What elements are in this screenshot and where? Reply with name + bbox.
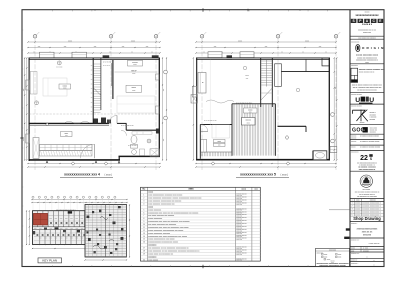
svg-text:17: 17 bbox=[143, 248, 145, 250]
svg-text:xxxxxxxx: xxxxxxxx bbox=[370, 131, 376, 133]
svg-text:6: 6 bbox=[143, 212, 144, 214]
svg-text:xxxxxxxxx: xxxxxxxxx bbox=[351, 65, 358, 67]
lift shaft bbox=[275, 64, 282, 87]
svg-text:xxx xxxxxxxxx xxx xxxxxxxxx: xxx xxxxxxxxx xxx xxxxxxxxx bbox=[357, 196, 377, 198]
svg-text:xxxxxxxx :: xxxxxxxx : bbox=[351, 263, 359, 265]
svg-text:xxxxxxxx xxxxxxxxxxx x: xxxxxxxx xxxxxxxxxxx x bbox=[362, 203, 381, 205]
svg-text:xxxx: xxxx bbox=[238, 40, 242, 42]
svg-text:xxx: xxx bbox=[218, 145, 221, 147]
svg-text:xxxxxxxxxxxx xxxxxxxxxxx x: xxxxxxxxxxxx xxxxxxxxxxx x bbox=[356, 60, 378, 62]
svg-text:xxxxxx: xxxxxx bbox=[355, 206, 360, 208]
svg-text:5: 5 bbox=[143, 209, 144, 211]
svg-text:xxx: xxx bbox=[249, 111, 252, 113]
drawing no field bbox=[350, 245, 384, 247]
svg-text:15: 15 bbox=[143, 239, 145, 241]
svg-text:xxx: xxx bbox=[335, 139, 337, 142]
svg-text:2: 2 bbox=[143, 198, 144, 200]
svg-text:KEY PLAN: KEY PLAN bbox=[42, 259, 57, 263]
svg-text:xxxxxx: xxxxxx bbox=[355, 203, 360, 205]
svg-text:xxxxxxxxxxxxxx xxx 4: xxxxxxxxxxxxxx xxx 4 bbox=[64, 173, 100, 177]
svg-text:xxxx xxxxx xxxx xxxxxxx: xxxx xxxxx xxxx xxxxxxx bbox=[358, 37, 375, 39]
svg-text:xxxxxxxx: xxxxxxxx bbox=[370, 114, 377, 116]
svg-text:22: 22 bbox=[360, 155, 368, 162]
svg-text:xx: xx bbox=[325, 51, 327, 53]
svg-text:xxxxxx xxx: xxxxxx xxx bbox=[370, 130, 377, 132]
svg-text:12: 12 bbox=[143, 230, 145, 232]
svg-text:xxxx: xxxx bbox=[338, 254, 342, 256]
svg-text:xxxxx xxx: xxxxx xxx bbox=[236, 239, 242, 241]
right dimension lines bbox=[162, 58, 164, 160]
svg-text:xx: xx bbox=[151, 51, 153, 53]
svg-text:xxx: xxx bbox=[246, 78, 249, 80]
svg-text:xx: xx bbox=[302, 51, 304, 53]
door swings bbox=[109, 115, 117, 123]
svg-text:xxxxxxxxxxxxx xxxxxxxxxx xxxxx: xxxxxxxxxxxxx xxxxxxxxxx xxxxx bbox=[148, 242, 178, 244]
svg-text:xxx: xxx bbox=[122, 46, 125, 48]
bathroom fixtures bbox=[131, 135, 137, 143]
svg-text:18: 18 bbox=[143, 250, 145, 252]
svg-text:xxx: xxx bbox=[38, 46, 41, 48]
title block column bbox=[349, 10, 351, 267]
svg-text:xxxx: xxxx bbox=[131, 40, 135, 42]
svg-text:xn u mx n: xn u mx n bbox=[103, 65, 110, 67]
svg-text:( xxxx ): ( xxxx ) bbox=[281, 174, 289, 177]
svg-text:xxxxxx: xxxxxx bbox=[355, 208, 360, 210]
SPACE logo bbox=[351, 19, 357, 23]
svg-text:5: 5 bbox=[277, 36, 278, 38]
stair right plan bbox=[260, 58, 262, 107]
svg-text:xxxxx xxxxxxxx xxxx: xxxxx xxxxxxxx xxxx bbox=[356, 55, 379, 57]
left floor plan bbox=[34, 39, 36, 170]
svg-text:xxxxxx: xxxxxx bbox=[132, 62, 137, 64]
svg-text:x : xxx: x : xxx bbox=[363, 248, 368, 250]
svg-text:xxxx: xxxx bbox=[132, 90, 135, 92]
svg-text:xxxxxxx xxxxxxx: xxxxxxx xxxxxxx bbox=[351, 106, 362, 108]
consultant rows bbox=[350, 139, 384, 141]
svg-text:xxxxxxx: xxxxxxx bbox=[148, 245, 157, 247]
svg-text:1: 1 bbox=[143, 195, 144, 197]
svg-text:xxx: xxx bbox=[23, 89, 25, 92]
legend box bbox=[316, 248, 350, 266]
svg-text:xxxx xxxxxxxxxxx xxxxxxx xxxx: xxxx xxxxxxxxxxx xxxxxxx xxxx xxxxx bbox=[148, 195, 182, 197]
svg-text:Shop Drawing: Shop Drawing bbox=[353, 216, 381, 221]
svg-text:xxx: xxx bbox=[265, 46, 268, 48]
svg-text:20: 20 bbox=[143, 259, 145, 261]
svg-text:xn u mx nw en xa: xn u mx nw en xa bbox=[204, 120, 217, 122]
svg-text:9: 9 bbox=[143, 221, 144, 223]
svg-text:xxxxx xxxxxxxx xxxxxxx: xxxxx xxxxxxxx xxxxxxx bbox=[148, 233, 170, 235]
svg-text:xxxxx: xxxxx bbox=[131, 87, 136, 89]
balcony ledges bbox=[40, 52, 55, 58]
svg-text:xxxxxx: xxxxxx bbox=[360, 122, 365, 124]
svg-text:xxxx xxxxx: xxxx xxxxx bbox=[370, 128, 377, 130]
svg-text:xn u mx nw en xa: xn u mx nw en xa bbox=[121, 125, 134, 127]
lower-left room furniture bbox=[201, 139, 207, 152]
svg-text:xxxxxxxxxxxxxxxxxx: xxxxxxxxxxxxxxxxxx bbox=[357, 228, 379, 230]
signature rows bbox=[350, 257, 384, 259]
svg-text:xxx xxxxxx: xxx xxxxxx bbox=[362, 189, 370, 191]
svg-text:3: 3 bbox=[110, 36, 111, 38]
svg-text:10: 10 bbox=[143, 224, 145, 226]
svg-text:x x x: x x x bbox=[365, 177, 368, 179]
svg-text:xxxxxx xxxxxxx xxxx xx: xxxxxx xxxxxxx xxxx xx bbox=[359, 71, 375, 73]
svg-text:xn u mx nw e: xn u mx nw e bbox=[128, 145, 138, 147]
svg-text:xxxx: xxxx bbox=[305, 40, 309, 42]
svg-text:3: 3 bbox=[352, 208, 353, 210]
svg-text:xxxxx xxx: xxxxx xxx bbox=[236, 204, 242, 206]
svg-text:xxxxxxx xx :: xxxxxxx xx : bbox=[351, 240, 360, 242]
ceiling lamp symbols bbox=[57, 61, 61, 65]
svg-text:xxxxx: xxxxx bbox=[63, 85, 68, 87]
project field bbox=[350, 237, 384, 239]
svg-text:xxxx: xxxx bbox=[218, 141, 222, 143]
highlighted unit (red) bbox=[33, 213, 47, 225]
left dimension line bbox=[24, 58, 26, 160]
svg-text:xxx: xxx bbox=[65, 135, 68, 137]
svg-text:xxxxx xxxxxxxx xxxxxxxxxxx xxx: xxxxx xxxxxxxx xxxxxxxxxxx xxx xxxxx bbox=[148, 230, 183, 232]
svg-text:xxxxxx: xxxxxx bbox=[246, 120, 251, 122]
bottom dimension lines bbox=[28, 163, 160, 165]
svg-text:xxxxxxxxxx xxx xxxx xxx xx xxx: xxxxxxxxxx xxx xxxx xxx xx xxxxxxxxxxxxx… bbox=[148, 212, 198, 214]
svg-text:xxxxxxx: xxxxxxx bbox=[351, 138, 357, 140]
svg-text:xxx xxxxxxxx xx xxx xxxxxxxx x: xxx xxxxxxxx xx xxx xxxxxxxx xxxxxxxxxx … bbox=[148, 248, 188, 250]
svg-text:8: 8 bbox=[143, 218, 144, 220]
svg-text:xxxxxxxxxxxxxxxx: xxxxxxxxxxxxxxxx bbox=[355, 14, 379, 17]
svg-text:xx xxx xxx xxx xxx xx: xx xxx xxx xxx xxx xxx xxx bbox=[357, 89, 376, 91]
svg-text:xxxxxx: xxxxxx bbox=[355, 211, 360, 213]
svg-text:xxxxxxx: xxxxxxx bbox=[370, 119, 376, 121]
svg-text:xxxx xxxxxxx xxxxxxxxxx xxx xx: xxxx xxxxxxx xxxxxxxxxx xxx xxxxxx bbox=[148, 201, 181, 203]
svg-text:xxxxx: xxxxx bbox=[365, 62, 369, 64]
svg-text:xxx: xxx bbox=[94, 46, 97, 48]
designer box bbox=[350, 91, 384, 93]
svg-text:xxxxx xxxxxxxxxxx xxx xxxxx: xxxxx xxxxxxxxxxx xxx xxxxx bbox=[148, 239, 174, 241]
svg-text:xxxx: xxxx bbox=[247, 122, 250, 124]
revision cloud marks bbox=[346, 228, 350, 230]
svg-text:xxxx xxxxxxxx xx xxx xxxxxxxxx: xxxx xxxxxxxx xx xxx xxxxxxxxx xxxxxxxx … bbox=[148, 250, 199, 252]
svg-text:xxxxxx: xxxxxx bbox=[351, 146, 356, 148]
svg-text:7: 7 bbox=[143, 215, 144, 217]
svg-text:11: 11 bbox=[143, 227, 145, 229]
hatched floor area bbox=[232, 103, 275, 105]
svg-text:4: 4 bbox=[352, 211, 353, 213]
GOC box bbox=[350, 133, 384, 135]
svg-text:xxxxxxx: xxxxxxx bbox=[148, 256, 157, 258]
svg-text:6: 6 bbox=[335, 36, 336, 38]
svg-text:xx: xx bbox=[33, 51, 35, 53]
svg-text:14: 14 bbox=[143, 236, 145, 238]
svg-text:16: 16 bbox=[143, 242, 145, 244]
svg-text:xxxxx xxxxxxxx: xxxxx xxxxxxxx bbox=[148, 218, 162, 220]
svg-text:xxxx xxxxxx xxxx xx: xxxx xxxxxx xxxx xx bbox=[359, 169, 375, 171]
key plan bbox=[32, 199, 127, 201]
svg-text:xxxx: xxxx bbox=[68, 40, 72, 42]
svg-text:xx: xx bbox=[203, 51, 205, 53]
svg-text:xxx xxx xxxxx xxxxxxxx xxxxxxx: xxx xxx xxxxx xxxxxxxx xxxxxxxx xx bbox=[355, 192, 380, 194]
svg-text:xxxx: xxxx bbox=[188, 189, 194, 191]
right plan dimension lines bbox=[192, 58, 194, 160]
right floor plan bbox=[201, 39, 203, 170]
svg-text:4: 4 bbox=[155, 36, 156, 38]
svg-text:xxxx: xxxx bbox=[133, 64, 136, 66]
room labels bbox=[59, 84, 71, 89]
svg-text:xxxxxxxxxx xxx xxxx xxx xxxxxx: xxxxxxxxxx xxx xxxx xxx xxxxxxxx xxx xxx… bbox=[148, 227, 188, 229]
scale and date rows bbox=[350, 248, 384, 250]
svg-text:xxxxxxxxx xxxxxxxxxxx xxxxxx: xxxxxxxxx xxxxxxxxxxx xxxxxx bbox=[319, 265, 345, 267]
finish schedule table bbox=[141, 187, 261, 261]
svg-text:xxxxxxxx xxxxxxxxxxx x: xxxxxxxx xxxxxxxxxxx x bbox=[362, 208, 381, 210]
svg-text:xxx: xxx bbox=[64, 46, 67, 48]
svg-text:xxxx xxxxxxx xxxxxxxxxx xxx: xxxx xxxxxxx xxxxxxxxxx xxx bbox=[148, 203, 174, 205]
svg-text:xxxxx xxxx xxx xxxxxxxx xx: xxxxx xxxx xxx xxxxxxxx xx bbox=[148, 253, 173, 255]
TK consultant box bbox=[350, 124, 384, 126]
svg-text:xxxxxx x: xxxxxx x bbox=[370, 112, 376, 114]
svg-text:xx xxxx: xx xxxx bbox=[363, 250, 369, 252]
svg-text:xxx: xxx bbox=[319, 46, 322, 48]
svg-text:xxx xxxx: xxx xxxx bbox=[56, 67, 62, 69]
svg-text:xxxxxxxxxxxxxx xxx 5: xxxxxxxxxxxxxx xxx 5 bbox=[240, 173, 276, 177]
svg-text:xxxx: xxxx bbox=[356, 200, 360, 202]
svg-text:x xxxxxxx: x xxxxxxx bbox=[370, 117, 377, 119]
svg-text:xx xxxxxx xxxxxxx xxxxxxx: xx xxxxxx xxxxxxx xxxxxxx bbox=[360, 135, 379, 137]
closet and interior bbox=[30, 72, 37, 95]
svg-text:xxxx: xxxx bbox=[351, 250, 354, 252]
Shop Drawing title bbox=[350, 221, 384, 223]
ORIGIN owner box bbox=[350, 63, 384, 65]
svg-text:4: 4 bbox=[201, 36, 202, 38]
svg-text:xxxxxxx xx :: xxxxxxx xx : bbox=[351, 253, 360, 255]
svg-text:xxxx xx xxxxxx xxxxxxx xxxx xx: xxxx xx xxxxxx xxxxxxx xxxx xxxxxx xxx x bbox=[352, 85, 382, 87]
svg-text:xxxxx: xxxxx bbox=[351, 248, 355, 250]
svg-text:2: 2 bbox=[352, 206, 353, 208]
svg-text:xxxxxxxx xxxxxxxxxxx x: xxxxxxxx xxxxxxxxxxx x bbox=[362, 206, 381, 208]
key plan right wing bbox=[85, 205, 127, 258]
svg-text:xx: xx bbox=[281, 51, 283, 53]
svg-text:xxxx: xxxx bbox=[338, 257, 342, 259]
svg-text:xxxxxxx xxxxxxx: xxxxxxx xxxxxxx bbox=[351, 94, 362, 96]
svg-text:xxxxxxxxxxx: xxxxxxxxxxx bbox=[351, 41, 360, 43]
revision table bbox=[350, 201, 384, 203]
walls right plan bbox=[196, 58, 330, 60]
svg-text:xx xxxxxx x xxxxxxx xxxxxxx: xx xxxxxx x xxxxxxx xxxxxxx bbox=[360, 146, 380, 148]
svg-text:xx xxxxxx x xxxxxxx xxxxxx: xx xxxxxx x xxxxxxx xxxxxx bbox=[360, 141, 380, 143]
svg-text:xxxxxxxxxx xxx xxxx xxx xxxxxx: xxxxxxxxxx xxx xxxx xxx xxxxxxx xxx xxxx… bbox=[148, 221, 189, 223]
svg-text:xxxxxxx :: xxxxxxx : bbox=[351, 223, 358, 225]
walls left plan bbox=[29, 58, 161, 60]
svg-text:xxxxxxx: xxxxxxx bbox=[363, 235, 372, 237]
key plan label bbox=[38, 258, 62, 263]
svg-text:xxxx: xxxx bbox=[132, 73, 135, 75]
svg-text:xxxxx xx :: xxxxx xx : bbox=[351, 259, 358, 261]
svg-text:xxxx xxxxxxxx xxxxxxxxx x xxxx: xxxx xxxxxxxx xxxxxxxxx x xxxxx xxxxxxxx… bbox=[148, 198, 201, 200]
svg-text:( xxxx ): ( xxxx ) bbox=[105, 174, 113, 177]
svg-text:xx: xx bbox=[109, 51, 111, 53]
svg-text:R A M A 9: R A M A 9 bbox=[362, 23, 373, 26]
svg-text:3: 3 bbox=[143, 201, 144, 203]
svg-text:xxxxxxxx xxxxxxxxxxx x: xxxxxxxx xxxxxxxxxxx x bbox=[362, 211, 381, 213]
svg-text:x: x bbox=[374, 260, 375, 262]
svg-text:xxxx: xxxx bbox=[245, 75, 249, 77]
22S contractor box bbox=[350, 170, 384, 172]
svg-text:x: x bbox=[374, 265, 375, 267]
svg-text:xxxxx xxx: xxxxx xxx bbox=[236, 260, 242, 262]
svg-text:xxx: xxx bbox=[146, 46, 149, 48]
svg-text:xx: xx bbox=[131, 51, 133, 53]
structural engineer box bbox=[350, 103, 384, 105]
svg-text:xxx xxxx xxxxxxx xxx xxxxxx: xxx xxxx xxxxxxx xxx xxxxxx bbox=[148, 215, 174, 217]
svg-text:xxx: xxx bbox=[163, 89, 165, 92]
svg-text:xxxxx xxx: xxxxx xxx bbox=[236, 254, 242, 256]
svg-text:13: 13 bbox=[143, 233, 145, 235]
svg-text:xxx: xxx bbox=[23, 139, 25, 142]
svg-text:xxxxxxx: xxxxxxx bbox=[351, 135, 357, 137]
svg-text:xxxxxxxxxx xxx xxxx xxxxxxxxxx: xxxxxxxxxx xxx xxxx xxxxxxxxxx xxx xxxxx bbox=[148, 236, 187, 238]
svg-text:1: 1 bbox=[352, 203, 353, 205]
svg-text:xxx xx: xxx xx bbox=[131, 71, 136, 73]
svg-text:x xxx xxx xx: x xxx xxx xx bbox=[369, 243, 380, 245]
svg-text:xxxx: xxxx bbox=[324, 254, 328, 256]
svg-text:xxx: xxx bbox=[214, 46, 217, 48]
svg-text:xxxxxxxxxx: xxxxxxxxxx bbox=[351, 151, 359, 153]
svg-text:xxx xxxx xxxxxxxx xxx xxxxxxx: xxx xxxx xxxxxxxx xxx xxxxxxx bbox=[148, 224, 176, 226]
svg-text:xxxxx xxx: xxxxx xxx bbox=[363, 32, 371, 34]
svg-text:xxx: xxx bbox=[335, 87, 337, 90]
professional seal bbox=[350, 198, 384, 200]
svg-text:xn u mx nw en xa ms x: xn u mx nw en xa ms x bbox=[236, 103, 252, 105]
svg-text:xn u mx nw: xn u mx nw bbox=[103, 62, 112, 64]
svg-text:xxxx xx xx: xxxx xx xx bbox=[362, 232, 373, 234]
svg-text:xxx xx x xxxxxxxx xxxx xxxxxx: xxx xx x xxxxxxxx xxxx xxxxxx xxxx xxx bbox=[353, 87, 382, 89]
svg-text:xxxx xxxxx: xxxx xxxxx bbox=[148, 259, 158, 261]
svg-text:S: S bbox=[370, 157, 372, 161]
svg-text:4: 4 bbox=[143, 203, 144, 205]
svg-text:19: 19 bbox=[143, 253, 145, 255]
svg-text:xxxx: xxxx bbox=[65, 133, 69, 135]
svg-text:xxxxxx xxxxx xxxxxxx xxx: xxxxxx xxxxx xxxxxxx xxx bbox=[359, 69, 385, 71]
svg-text:2: 2 bbox=[34, 36, 35, 38]
svg-text:xxxxx xxxxxxx: xxxxx xxxxxxx bbox=[148, 209, 161, 211]
svg-text:O R I G I N: O R I G I N bbox=[362, 46, 384, 50]
key plan building bar bbox=[33, 211, 101, 245]
svg-text:xxxxx: xxxxx bbox=[248, 109, 253, 111]
svg-text:xxx: xxx bbox=[163, 139, 165, 142]
svg-text:xxxxxxx: xxxxxxx bbox=[370, 200, 376, 202]
corridor wall bbox=[281, 71, 329, 73]
svg-text:xxxxxxx: xxxxxxx bbox=[351, 141, 357, 143]
svg-text:xxx xx xxxxxxx xxxxx x: xxx xx xxxxxxx xxxxx x bbox=[359, 194, 375, 196]
stair treads bbox=[94, 63, 101, 65]
project name box bbox=[350, 35, 384, 37]
svg-text:xxxx: xxxx bbox=[63, 87, 66, 89]
svg-text:xxx xxxxxxxxxxxxxxxxxxxx x: xxx xxxxxxxxxxxxxxxxxxxx x bbox=[357, 162, 377, 164]
svg-text:x: x bbox=[367, 256, 368, 258]
